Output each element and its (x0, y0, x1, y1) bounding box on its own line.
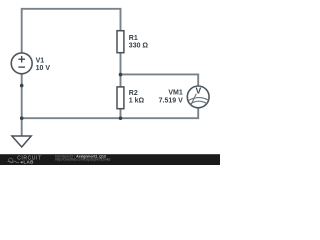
svg-text:R2: R2 (129, 90, 138, 97)
svg-text:330 Ω: 330 Ω (129, 42, 149, 49)
svg-text:7.519 V: 7.519 V (159, 97, 183, 104)
svg-text:http://circuitlab.com/c6pd2qhk: http://circuitlab.com/c6pd2qhk7s2mkd (55, 157, 110, 161)
svg-text:LAB: LAB (23, 159, 34, 164)
svg-text:1 kΩ: 1 kΩ (129, 98, 145, 105)
svg-text:10 V: 10 V (36, 65, 51, 72)
svg-text:R1: R1 (129, 35, 138, 42)
svg-text:VM1: VM1 (168, 90, 183, 97)
svg-text:V1: V1 (36, 58, 45, 65)
